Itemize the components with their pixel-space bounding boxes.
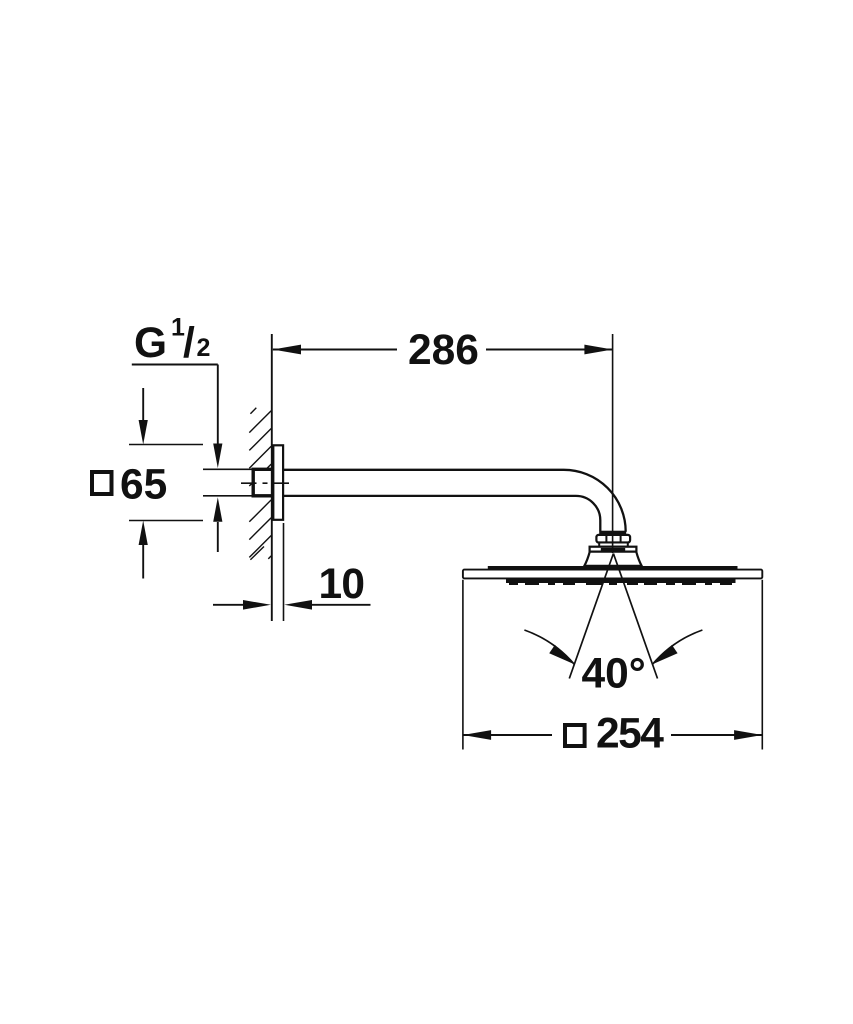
escutcheon lip xyxy=(590,547,637,552)
G1/2 lower arrow up xyxy=(217,522,219,552)
dim 65 lower arrow xyxy=(142,545,144,579)
fitting extension line top xyxy=(203,468,252,470)
40 degree right arc arrow xyxy=(653,630,703,664)
svg-text:10: 10 xyxy=(319,561,365,608)
dim 254 left arrowhead xyxy=(463,730,491,740)
nut facet left xyxy=(605,535,607,543)
wall line xyxy=(271,334,273,621)
dim 65 upper arrow xyxy=(142,388,144,420)
shower arm bottom line xyxy=(284,496,601,531)
centerline of arm xyxy=(241,482,291,484)
svg-text:2: 2 xyxy=(197,334,211,362)
dim 10 left tail and arrow xyxy=(213,604,245,606)
dim 254 extension right xyxy=(761,580,763,750)
G1/2 leader vertical with down arrow xyxy=(217,365,219,445)
dim 254 right arrowhead xyxy=(734,730,762,740)
dim 286 left arrowhead xyxy=(273,345,301,355)
svg-text:254: 254 xyxy=(596,711,664,758)
40 degree vertex lines xyxy=(569,554,613,679)
dim 65 extension top xyxy=(129,444,203,446)
fitting (G1/2 nipple behind wall) xyxy=(253,469,274,496)
shower arm top line xyxy=(284,470,626,532)
lip shadow line xyxy=(601,548,625,551)
wall hatching xyxy=(249,408,271,560)
G1/2 leader horizontal xyxy=(132,364,218,366)
head top face thick line xyxy=(488,566,738,570)
swivel collar xyxy=(599,543,628,547)
dim 65 extension bottom xyxy=(129,520,203,522)
pipe end ring xyxy=(599,531,626,534)
svg-text:G: G xyxy=(134,320,167,367)
svg-text:/: / xyxy=(183,320,195,367)
square symbol for 65 xyxy=(92,472,112,494)
spray nozzle bumps xyxy=(509,583,735,585)
ball joint cone xyxy=(584,552,641,566)
dim 254 line left segment xyxy=(463,734,552,736)
dim 286 line left segment xyxy=(273,349,397,351)
fitting extension line bottom xyxy=(203,495,252,497)
svg-text:40°: 40° xyxy=(582,650,646,697)
shower head plate xyxy=(463,570,762,579)
dim 254 extension left xyxy=(462,580,464,750)
dim 10 flange extension line xyxy=(283,523,285,621)
svg-text:286: 286 xyxy=(408,327,479,374)
dim 10 right arrow and tail xyxy=(284,600,312,610)
square symbol for 254 xyxy=(565,725,585,746)
dim 286 right arrowhead xyxy=(584,345,612,355)
40 degree left arc arrow xyxy=(524,630,574,664)
dim 286 line right segment xyxy=(486,349,613,351)
svg-text:65: 65 xyxy=(120,462,167,509)
extension line right of 286 xyxy=(612,334,614,553)
hex nut xyxy=(596,535,630,543)
wall flange escutcheon xyxy=(273,445,283,520)
nut facet right xyxy=(620,535,622,543)
spray nozzle band xyxy=(506,579,736,583)
dim 254 line right segment xyxy=(671,734,762,736)
